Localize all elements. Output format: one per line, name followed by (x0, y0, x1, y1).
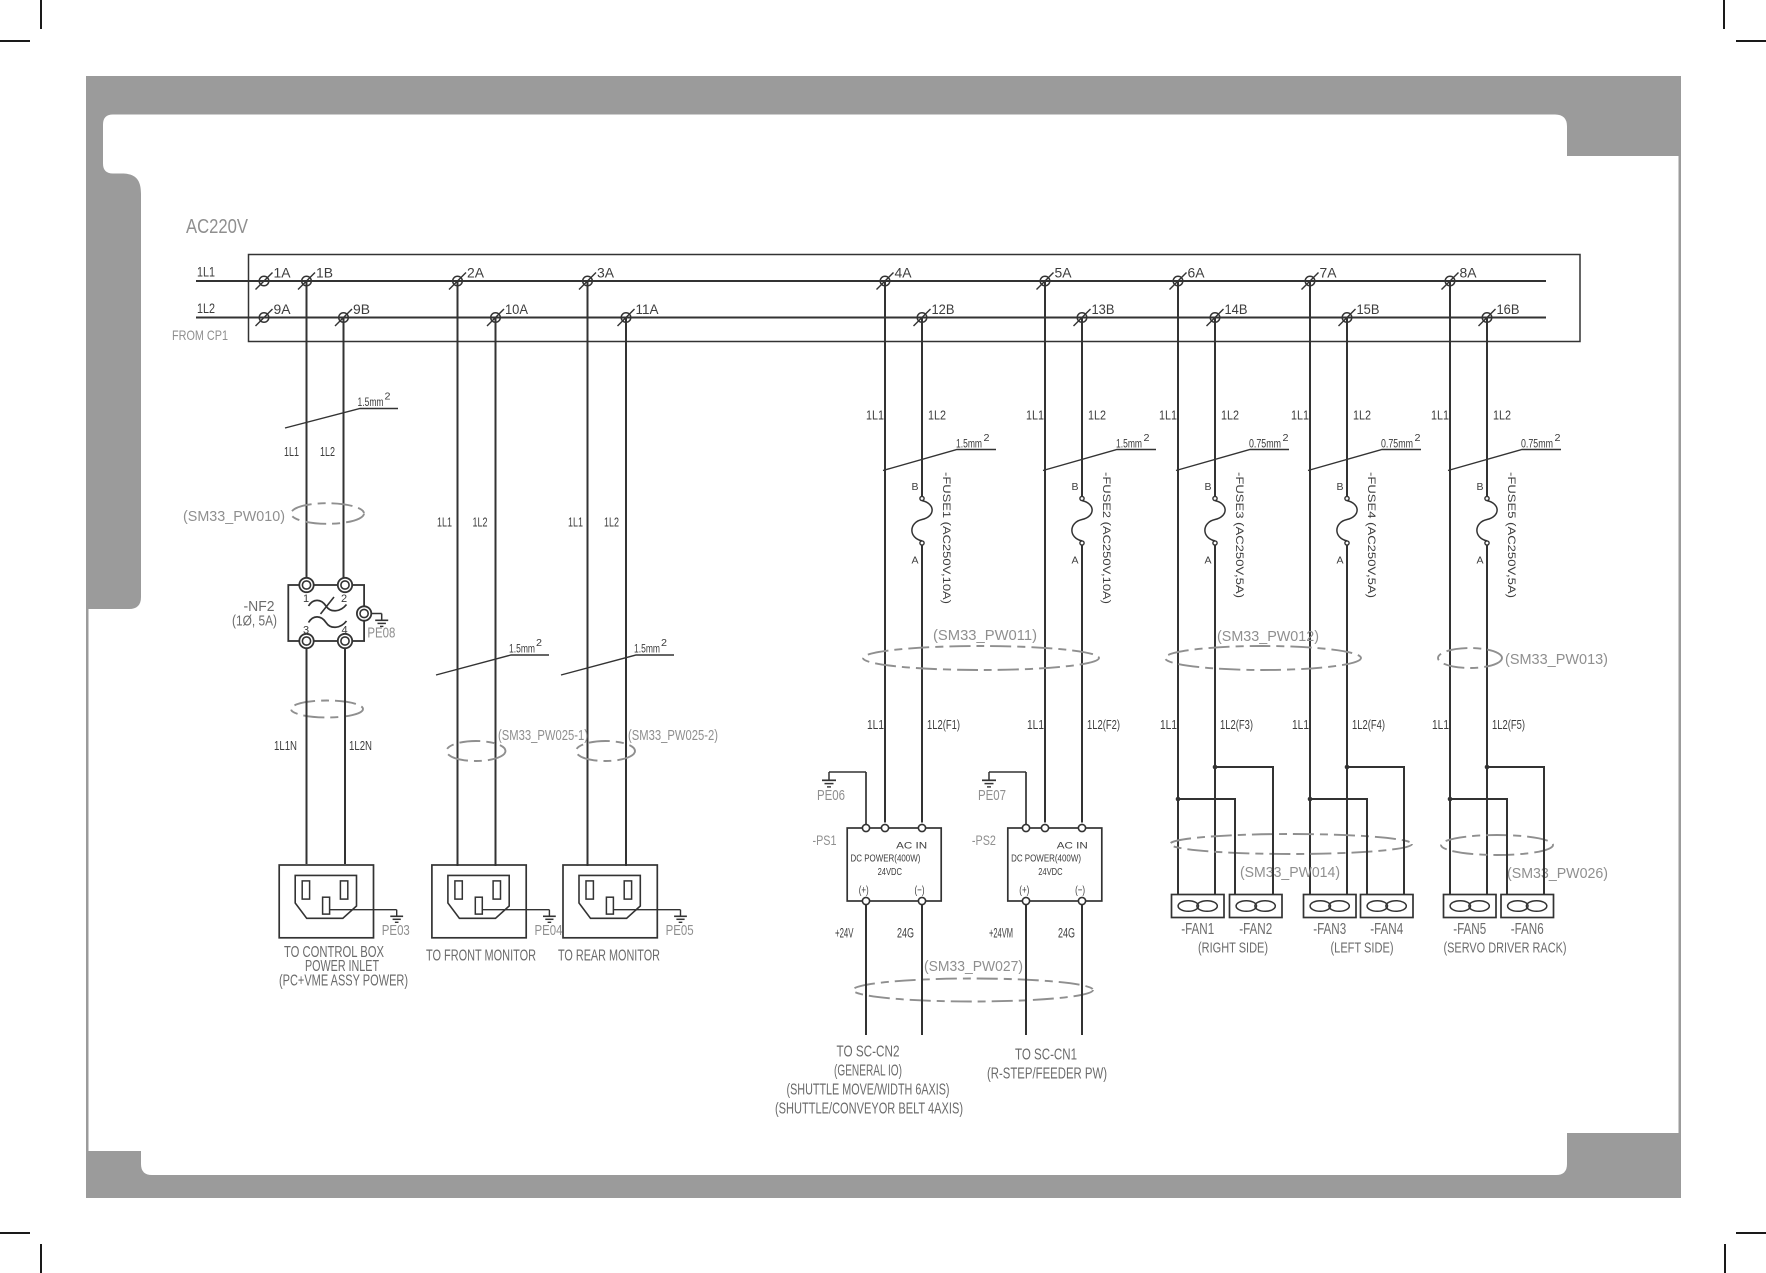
svg-text:DC POWER(400W): DC POWER(400W) (851, 853, 921, 865)
svg-text:A: A (1071, 555, 1078, 567)
svg-text:3: 3 (303, 625, 309, 637)
svg-text:24G: 24G (897, 926, 914, 941)
wire 1L2 drop fan group 3 lower (1486, 545, 1488, 894)
svg-text:1L1: 1L1 (284, 445, 299, 459)
svg-text:1L2(F1): 1L2(F1) (927, 717, 960, 732)
svg-text:-FAN6: -FAN6 (1511, 921, 1544, 938)
svg-text:(SHUTTLE/CONVEYOR BELT 4AXIS): (SHUTTLE/CONVEYOR BELT 4AXIS) (775, 1101, 963, 1118)
terminal 5A (1037, 266, 1072, 290)
svg-text:1L2(F2): 1L2(F2) (1087, 717, 1120, 732)
power supply PS1 (847, 824, 941, 904)
fan FAN5 (1444, 895, 1497, 918)
wire 1L2 drop fan group 3 upper (1486, 318, 1488, 497)
wire bus 1L2 (196, 317, 1546, 319)
svg-text:1.5mm: 1.5mm (956, 437, 982, 451)
wire +24VM output (1025, 905, 1027, 1035)
wire 1L1 drop fan group 3 (1449, 281, 1451, 894)
svg-text:-FUSE4 (AC250V,5A): -FUSE4 (AC250V,5A) (1365, 472, 1377, 598)
terminal 6A (1170, 266, 1205, 290)
fuse FUSE1 (911, 472, 952, 604)
svg-text:1L1N: 1L1N (274, 738, 297, 753)
terminal 11A (618, 302, 659, 326)
svg-text:PE08: PE08 (367, 625, 395, 642)
cable SM33_PW013 (1438, 648, 1608, 668)
svg-text:B: B (1204, 481, 1211, 493)
svg-text:1L2: 1L2 (473, 516, 488, 530)
svg-text:1L2(F5): 1L2(F5) (1492, 717, 1525, 732)
terminal 9B (335, 302, 370, 326)
svg-text:TO SC-CN1: TO SC-CN1 (1015, 1047, 1077, 1064)
terminal 12B (914, 302, 955, 326)
svg-text:6A: 6A (1188, 266, 1205, 281)
svg-text:1L1: 1L1 (1292, 717, 1309, 732)
cable SM33_PW010 (183, 503, 364, 525)
svg-text:1.5mm: 1.5mm (358, 395, 384, 409)
svg-text:TO REAR MONITOR: TO REAR MONITOR (558, 948, 660, 965)
svg-text:24VDC: 24VDC (878, 866, 903, 878)
label wire size 1.5mm2 PS2 (1043, 433, 1156, 471)
svg-text:-FUSE5 (AC250V,5A): -FUSE5 (AC250V,5A) (1505, 472, 1517, 598)
svg-text:-FAN3: -FAN3 (1313, 921, 1346, 938)
noise filter NF2 (288, 578, 364, 648)
terminal 13B (1074, 302, 1115, 326)
svg-text:2: 2 (1144, 433, 1150, 444)
svg-text:-FAN2: -FAN2 (1239, 921, 1272, 938)
svg-text:PE05: PE05 (666, 922, 694, 939)
terminal 3A (579, 266, 614, 290)
svg-text:PE06: PE06 (817, 787, 845, 804)
svg-text:1L2N: 1L2N (349, 738, 372, 753)
svg-text:B: B (1476, 481, 1483, 493)
svg-text:1L1: 1L1 (1291, 408, 1309, 423)
wire 1L1 drop from 4A (884, 281, 886, 823)
svg-text:AC IN: AC IN (1057, 841, 1088, 852)
wire +24V output (865, 905, 867, 1035)
fan FAN3 (1304, 895, 1357, 918)
fuse FUSE4 (1336, 472, 1377, 598)
svg-text:-NF2: -NF2 (244, 598, 275, 615)
wire 1L2 drop fan group 1 upper (1214, 318, 1216, 497)
svg-text:+24VM: +24VM (989, 926, 1013, 941)
svg-text:PE07: PE07 (978, 787, 1006, 804)
ground PE07 (978, 772, 1026, 824)
wire 1L2 drop from 10A (495, 318, 497, 867)
svg-text:(+): (+) (1019, 885, 1029, 897)
fan FAN2 (1230, 895, 1283, 918)
svg-text:(RIGHT SIDE): (RIGHT SIDE) (1198, 940, 1268, 957)
svg-text:1L2: 1L2 (604, 516, 619, 530)
svg-text:(SM33_PW013): (SM33_PW013) (1505, 652, 1608, 668)
svg-text:(SHUTTLE MOVE/WIDTH 6AXIS): (SHUTTLE MOVE/WIDTH 6AXIS) (787, 1082, 950, 1099)
svg-text:1L1: 1L1 (1159, 408, 1177, 423)
label wire size 0.75mm2 fan group 3 (1448, 433, 1561, 471)
svg-text:(SM33_PW025-2): (SM33_PW025-2) (628, 728, 718, 744)
terminal 1A (256, 266, 291, 290)
cable SM33_PW025-1 (447, 728, 589, 761)
svg-text:1L2: 1L2 (928, 408, 946, 423)
svg-text:1L2: 1L2 (1088, 408, 1106, 423)
svg-text:14B: 14B (1225, 302, 1248, 317)
svg-text:9A: 9A (274, 302, 291, 317)
svg-text:2: 2 (536, 638, 542, 649)
svg-text:1.5mm: 1.5mm (634, 642, 660, 656)
svg-text:-FAN5: -FAN5 (1453, 921, 1486, 938)
svg-text:13B: 13B (1092, 302, 1115, 317)
fuse FUSE3 (1204, 472, 1245, 598)
ground PE05 (613, 910, 693, 939)
svg-text:1.5mm: 1.5mm (509, 642, 535, 656)
terminal 15B (1339, 302, 1380, 326)
svg-text:-PS2: -PS2 (972, 832, 996, 848)
wire 1L1 drop from 1B (306, 281, 308, 578)
svg-text:1L1: 1L1 (1431, 408, 1449, 423)
svg-text:1L2(F3): 1L2(F3) (1220, 717, 1253, 732)
svg-text:1L2: 1L2 (320, 445, 335, 459)
svg-text:9B: 9B (353, 302, 370, 317)
svg-text:2: 2 (1555, 433, 1561, 444)
svg-text:AC220V: AC220V (186, 216, 249, 238)
svg-text:1A: 1A (274, 266, 291, 281)
terminal 1B (298, 266, 333, 290)
cable SM33_PW027 (853, 959, 1093, 1002)
wire 1L1 drop fan group 1 (1177, 281, 1179, 894)
wire 1L2(F1) drop lower (921, 545, 923, 823)
svg-text:1L1: 1L1 (1026, 408, 1044, 423)
svg-text:2: 2 (1415, 433, 1421, 444)
terminal 7A (1302, 266, 1337, 290)
wire 1L1 drop fan group 2 (1309, 281, 1311, 894)
wire 1L2(F2) drop lower (1081, 545, 1083, 823)
svg-text:10A: 10A (505, 302, 528, 317)
svg-text:(GENERAL IO): (GENERAL IO) (834, 1063, 902, 1080)
wire 1L2N (344, 648, 346, 864)
wire fan group 2 L1 jumper (1308, 797, 1367, 895)
svg-text:A: A (911, 555, 918, 567)
bus box from CP1 (249, 255, 1581, 342)
wire 1L1 drop from 3A (587, 281, 589, 866)
svg-text:1L1: 1L1 (1027, 717, 1044, 732)
svg-text:(SM33_PW025-1): (SM33_PW025-1) (498, 728, 588, 744)
wire 1L2 drop from 13B upper (1081, 318, 1083, 497)
svg-text:(−): (−) (915, 885, 925, 897)
svg-text:0.75mm: 0.75mm (1521, 437, 1553, 451)
svg-text:2: 2 (385, 392, 391, 403)
svg-text:(SM33_PW014): (SM33_PW014) (1240, 865, 1340, 881)
svg-text:1L2: 1L2 (1493, 408, 1511, 423)
svg-text:AC IN: AC IN (896, 841, 927, 852)
wire 1L1 drop from 5A (1044, 281, 1046, 823)
svg-text:1L1: 1L1 (1160, 717, 1177, 732)
wire fan group 3 L1 jumper (1448, 797, 1507, 895)
svg-text:3A: 3A (597, 266, 614, 281)
svg-text:PE04: PE04 (535, 922, 563, 939)
svg-text:12B: 12B (932, 302, 955, 317)
svg-text:1L1: 1L1 (1432, 717, 1449, 732)
svg-text:(PC+VME ASSY POWER): (PC+VME ASSY POWER) (279, 973, 408, 990)
svg-text:7A: 7A (1320, 266, 1337, 281)
terminal 16B (1479, 302, 1520, 326)
svg-text:1L1: 1L1 (867, 717, 884, 732)
svg-text:(SM33_PW012): (SM33_PW012) (1217, 629, 1319, 645)
wire 1L2 drop from 9B (343, 318, 345, 579)
svg-text:B: B (911, 481, 918, 493)
svg-text:1L2(F4): 1L2(F4) (1352, 717, 1385, 732)
ground PE06 (817, 772, 866, 824)
cable SM33_PW014 (1170, 834, 1412, 881)
svg-text:-FAN1: -FAN1 (1181, 921, 1214, 938)
svg-text:1B: 1B (316, 266, 333, 281)
wire 1L1 drop from 2A (457, 281, 459, 866)
svg-text:1L1: 1L1 (866, 408, 884, 423)
wire fan group 1 L2 jumper (1213, 765, 1273, 895)
svg-text:24G: 24G (1058, 926, 1075, 941)
svg-text:(−): (−) (1075, 885, 1085, 897)
wire fan group 1 L1 jumper (1176, 797, 1235, 895)
svg-text:(SM33_PW010): (SM33_PW010) (183, 509, 285, 525)
svg-text:-FUSE1 (AC250V,10A): -FUSE1 (AC250V,10A) (940, 472, 952, 604)
svg-text:1L2: 1L2 (1221, 408, 1239, 423)
svg-text:2: 2 (661, 638, 667, 649)
wire fan group 3 L2 jumper (1485, 765, 1544, 895)
wire bus 1L1 (196, 280, 1546, 282)
svg-text:24VDC: 24VDC (1038, 866, 1063, 878)
terminal 9A (256, 302, 291, 326)
svg-text:0.75mm: 0.75mm (1381, 437, 1413, 451)
svg-text:2: 2 (1283, 433, 1289, 444)
svg-text:15B: 15B (1357, 302, 1380, 317)
svg-text:-FAN4: -FAN4 (1370, 921, 1403, 938)
svg-text:(+): (+) (859, 885, 869, 897)
label wire size 1.5mm2 PS1 (883, 433, 996, 471)
svg-text:(SERVO DRIVER RACK): (SERVO DRIVER RACK) (1444, 940, 1567, 957)
wire 1L2 drop fan group 1 lower (1214, 545, 1216, 894)
svg-text:1: 1 (303, 593, 309, 605)
fuse FUSE5 (1476, 472, 1517, 598)
ground PE04 (482, 910, 562, 939)
svg-text:(SM33_PW011): (SM33_PW011) (933, 628, 1037, 644)
svg-text:1L2: 1L2 (1353, 408, 1371, 423)
svg-text:TO SC-CN2: TO SC-CN2 (837, 1044, 900, 1061)
label wire size 0.75mm2 fan group 1 (1176, 433, 1289, 471)
svg-text:5A: 5A (1055, 266, 1072, 281)
svg-text:-FUSE3 (AC250V,5A): -FUSE3 (AC250V,5A) (1233, 472, 1245, 598)
cable SM33_PW012 (1165, 629, 1361, 670)
svg-text:2A: 2A (467, 266, 484, 281)
wire 1L2 drop from 12B upper (921, 318, 923, 497)
connector power inlet PE03 (279, 865, 373, 938)
svg-text:4: 4 (341, 625, 347, 637)
svg-text:FROM CP1: FROM CP1 (172, 327, 228, 343)
wire 24G output PS1 (921, 905, 923, 1035)
svg-text:2: 2 (984, 433, 990, 444)
wire fan group 2 L2 jumper (1345, 765, 1404, 895)
svg-text:2: 2 (341, 593, 347, 605)
svg-text:TO FRONT MONITOR: TO FRONT MONITOR (426, 948, 536, 965)
svg-text:8A: 8A (1460, 266, 1477, 281)
terminal 4A (877, 266, 912, 290)
svg-text:PE03: PE03 (382, 922, 410, 939)
terminal 8A (1442, 266, 1477, 290)
fan FAN1 (1172, 895, 1225, 918)
terminal 10A (487, 302, 528, 326)
label wire size 1.5mm2 front monitor (436, 638, 549, 675)
svg-text:A: A (1336, 555, 1343, 567)
svg-text:DC POWER(400W): DC POWER(400W) (1011, 853, 1081, 865)
label wire size 1.5mm2 rear monitor (561, 638, 674, 675)
terminal 14B (1207, 302, 1248, 326)
svg-text:1L1: 1L1 (437, 516, 452, 530)
fan FAN4 (1361, 895, 1414, 918)
svg-text:1L1: 1L1 (197, 265, 215, 280)
ground PE03 (330, 910, 410, 939)
svg-text:11A: 11A (636, 302, 659, 317)
power supply PS2 (1008, 824, 1102, 904)
svg-text:B: B (1336, 481, 1343, 493)
label wire size 0.75mm2 fan group 2 (1308, 433, 1421, 471)
fan FAN6 (1501, 895, 1554, 918)
svg-text:-PS1: -PS1 (813, 832, 837, 848)
fuse FUSE2 (1071, 472, 1112, 604)
terminal 2A (449, 266, 484, 290)
cable SM33_PW025-2 (576, 728, 718, 761)
svg-text:1L2: 1L2 (197, 301, 215, 316)
wire 24G output PS2 (1081, 905, 1083, 1035)
wire 1L2 drop fan group 2 lower (1346, 545, 1348, 894)
svg-text:0.75mm: 0.75mm (1249, 437, 1281, 451)
svg-text:(SM33_PW026): (SM33_PW026) (1507, 866, 1608, 882)
connector power inlet PE04 (432, 865, 526, 938)
svg-text:A: A (1476, 555, 1483, 567)
svg-text:1.5mm: 1.5mm (1116, 437, 1142, 451)
cable ellipse below NF2 (291, 701, 363, 718)
cable SM33_PW026 (1441, 835, 1608, 882)
connector power inlet PE05 (563, 865, 657, 938)
label wire size 1.5mm2 NF2 (285, 392, 398, 429)
svg-text:-FUSE2 (AC250V,10A): -FUSE2 (AC250V,10A) (1100, 472, 1112, 604)
svg-text:4A: 4A (895, 266, 912, 281)
svg-text:(SM33_PW027): (SM33_PW027) (924, 959, 1023, 975)
wire 1L2 drop from 11A (625, 318, 627, 867)
wire 1L2 drop fan group 2 upper (1346, 318, 1348, 497)
svg-text:+24V: +24V (835, 926, 854, 941)
svg-text:(1Ø, 5A): (1Ø, 5A) (232, 614, 277, 630)
svg-text:16B: 16B (1497, 302, 1520, 317)
svg-text:(R-STEP/FEEDER PW): (R-STEP/FEEDER PW) (987, 1066, 1107, 1083)
svg-text:(LEFT SIDE): (LEFT SIDE) (1331, 940, 1394, 957)
svg-text:B: B (1071, 481, 1078, 493)
ground PE08 (357, 606, 396, 641)
svg-text:A: A (1204, 555, 1211, 567)
wire 1L1N (306, 648, 308, 864)
svg-text:1L1: 1L1 (568, 516, 583, 530)
cable SM33_PW011 (863, 628, 1099, 670)
